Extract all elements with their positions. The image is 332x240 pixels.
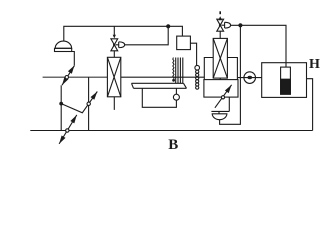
valve V1 center dot [113,44,116,47]
switch S1 [62,65,75,85]
label B [168,137,178,154]
wire bottom line [30,130,312,132]
valve V1 body [111,39,125,51]
node dot S2 [59,102,63,106]
valve V2 body [217,19,231,38]
pump P1 [238,72,262,84]
bubbler chain [195,65,200,89]
wire V2 to tank top [230,25,286,67]
tub body [142,88,176,107]
wire junction A to box B1 [168,26,182,36]
node A dot [166,24,170,28]
switch S2 [61,77,97,130]
wire box B1 to bubbler [190,43,196,65]
heat exchanger E1 [107,51,120,110]
heat exchanger E2 [213,38,227,79]
label H [309,57,320,73]
water jet lines [176,58,183,84]
wire bell top to junction A [64,26,168,41]
wire S1 down [60,85,62,130]
box B1 [177,36,191,50]
tank T1 [262,63,307,98]
tub rim [132,83,187,88]
wire E2 left bypass [204,58,213,80]
valve V1 shaft with down arrow [113,26,116,38]
node C dot [238,23,242,27]
wire node C down to cup [220,25,241,124]
tub port circle [173,94,179,100]
node dot steam [172,79,175,82]
wire main line right [121,76,204,78]
wire main line left [43,76,107,78]
steam zigzag [173,58,174,81]
drain cup [211,97,229,120]
wire E2 right bypass [227,58,237,80]
regulator R1 [204,80,238,108]
wire tank right down [307,79,313,131]
wire V1 actuator to junction A [125,26,169,45]
wire bell to switch S1 [72,52,75,66]
switch S3 [59,115,77,144]
bell [55,41,71,48]
valve V2 center dot [219,24,222,27]
vent arrow above valve V2 [218,11,222,20]
